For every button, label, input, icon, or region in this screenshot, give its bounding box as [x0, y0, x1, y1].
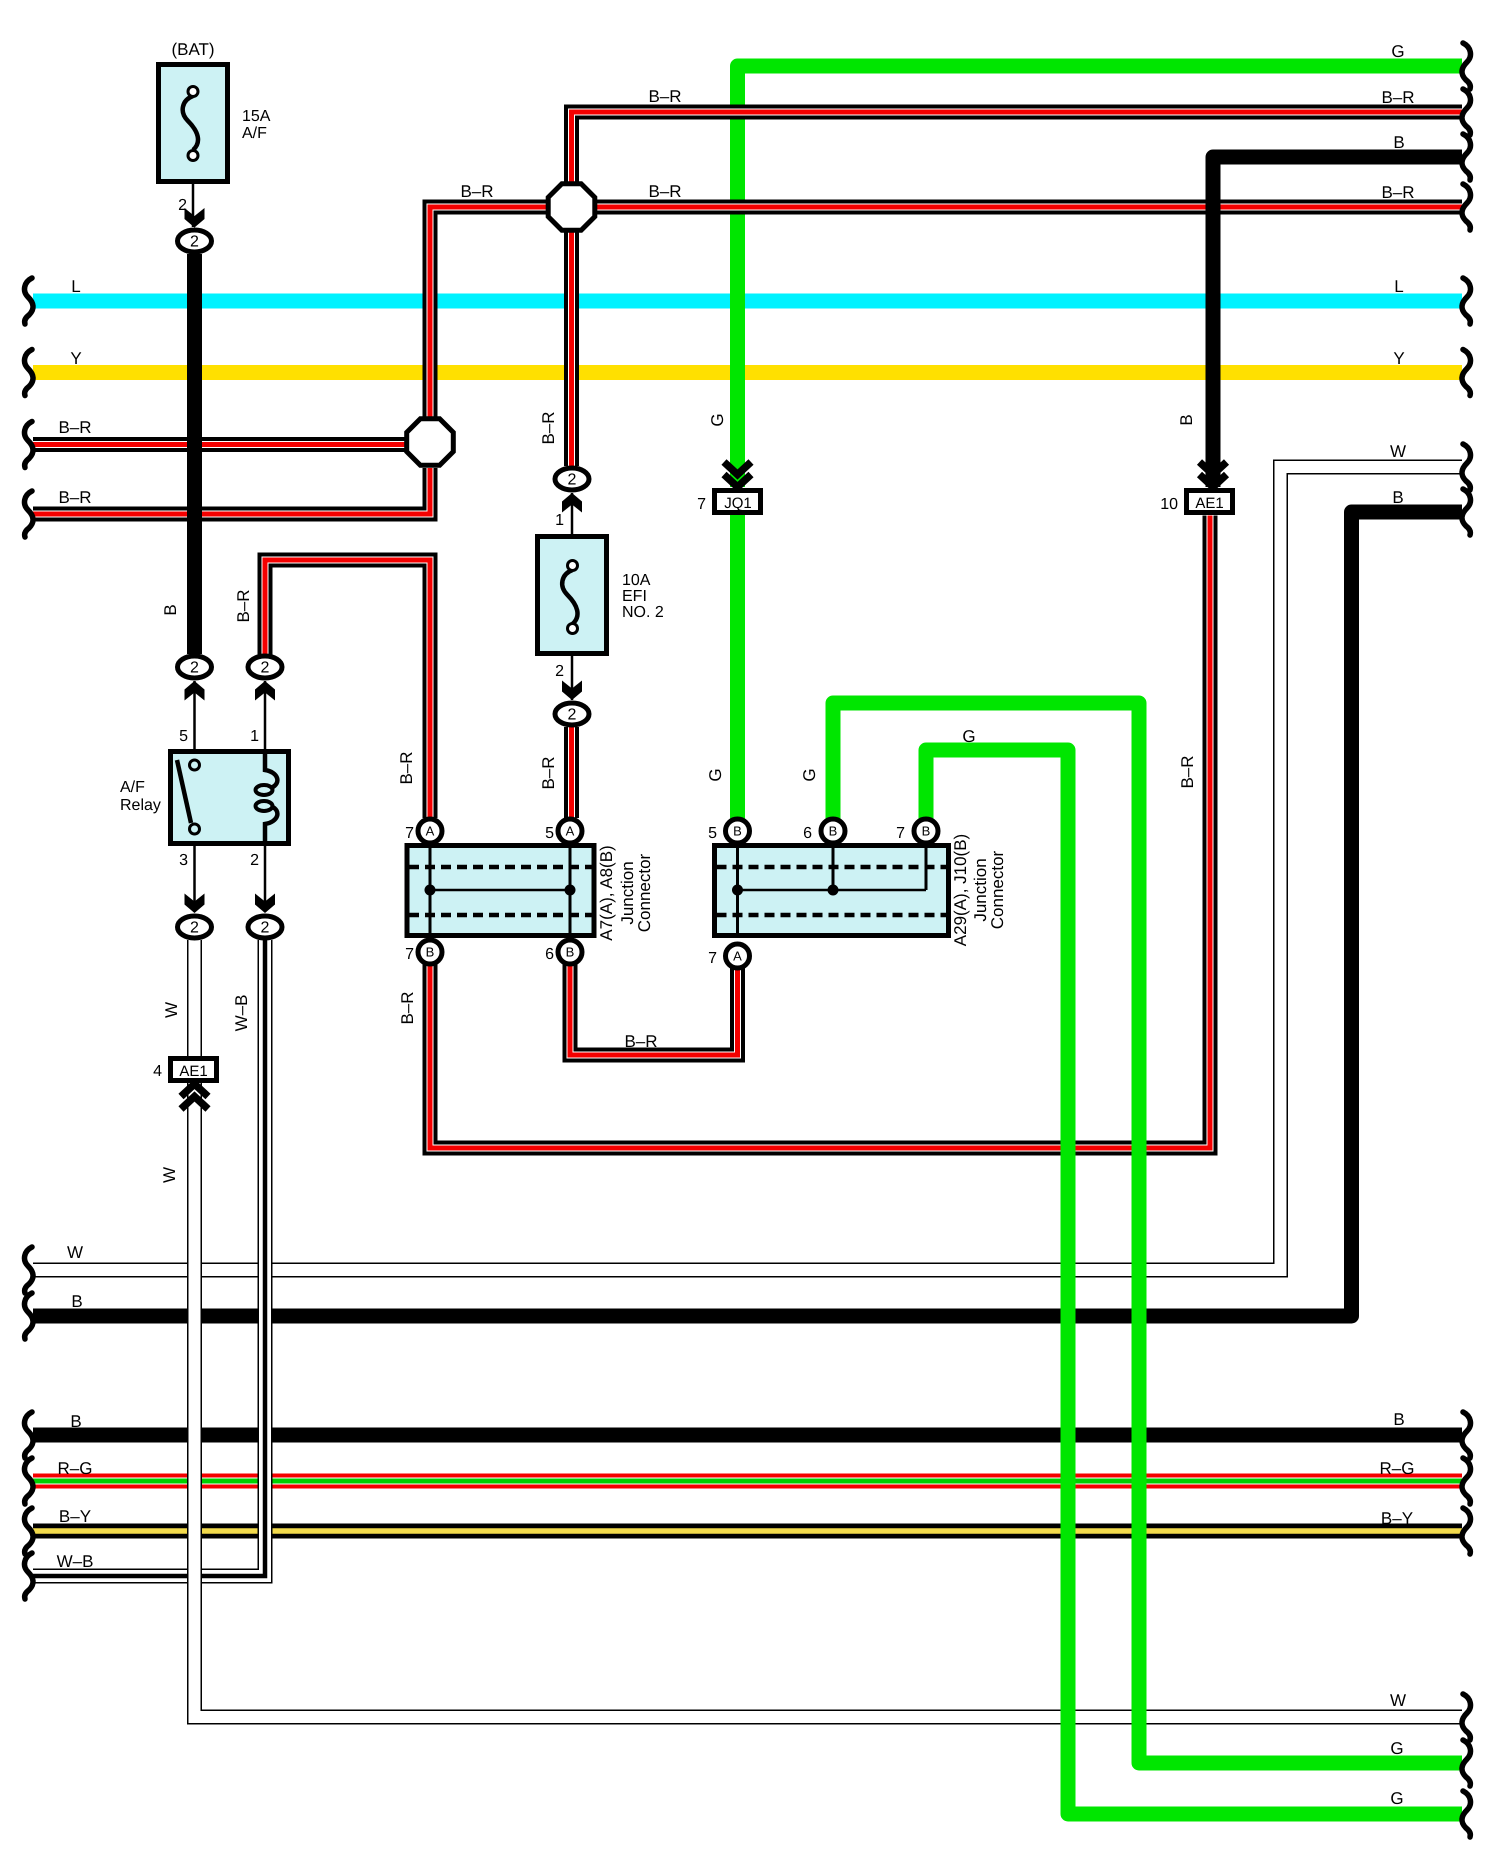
continuation squiggle left y=514 — [25, 491, 34, 537]
connector box AE1 left — [171, 1059, 217, 1081]
node oval 2 below fuse 15A — [178, 230, 212, 252]
wire W-B relay to left edge — [33, 940, 265, 1576]
wire W relay down to right edge — [195, 940, 1463, 1717]
svg-text:3: 3 — [179, 852, 188, 869]
svg-text:Relay: Relay — [120, 797, 161, 814]
arrow down into oval below relay pin 2 — [255, 894, 275, 914]
wire L (light blue) horizontal — [33, 294, 1462, 309]
junction connector A7(A), A8(B) — [407, 845, 594, 936]
continuation squiggle right y=301 — [1462, 278, 1471, 324]
fuse 10A EFI NO. 2 — [538, 537, 607, 654]
svg-text:2: 2 — [190, 234, 199, 251]
continuation squiggle right y=1717 — [1462, 1694, 1471, 1740]
continuation squiggle right y=372.5 — [1462, 350, 1471, 396]
svg-text:R–G: R–G — [1380, 1459, 1415, 1478]
svg-text:B–R: B–R — [1381, 183, 1414, 202]
svg-text:G: G — [962, 727, 975, 746]
wire B-R EFI fuse to junction pin 5A — [564, 727, 579, 818]
svg-text:B: B — [71, 1292, 82, 1311]
continuation squiggle right y=467 — [1462, 444, 1471, 490]
continuation squiggle left y=1531 — [25, 1508, 34, 1554]
svg-text:B: B — [1177, 414, 1196, 425]
continuation squiggle right y=112 — [1462, 89, 1471, 135]
relay pin 3 lead — [193, 844, 196, 912]
svg-text:5: 5 — [545, 825, 554, 842]
relay pin 5 lead — [193, 681, 196, 751]
wire W left edge loop to right edge — [33, 467, 1462, 1270]
wire B right edge to AE1 — [1213, 157, 1462, 487]
continuation squiggle left y=444.5 — [25, 422, 34, 468]
svg-text:2: 2 — [261, 660, 270, 677]
wire G junction 6B long run to right edge — [833, 703, 1462, 1763]
svg-text:B: B — [161, 604, 180, 615]
continuation squiggle right y=66 — [1462, 43, 1471, 89]
svg-text:A: A — [733, 949, 742, 964]
svg-text:(BAT): (BAT) — [171, 40, 214, 59]
continuation squiggle left y=1576 — [25, 1553, 34, 1599]
svg-text:W: W — [67, 1243, 83, 1262]
svg-text:B: B — [733, 824, 742, 839]
wire B-R junction 7B loop to AE1 — [430, 516, 1210, 1149]
svg-text:A/F: A/F — [120, 779, 145, 796]
node oval 2 below EFI fuse — [555, 703, 589, 725]
svg-text:2: 2 — [568, 472, 577, 489]
svg-text:B–R: B–R — [648, 87, 681, 106]
arrow down into oval below EFI fuse — [562, 681, 582, 701]
svg-text:7: 7 — [405, 946, 414, 963]
svg-text:B: B — [922, 824, 931, 839]
svg-text:A: A — [566, 824, 575, 839]
svg-text:A: A — [426, 824, 435, 839]
svg-text:6: 6 — [545, 946, 554, 963]
wire B left edge loop to right edge — [33, 512, 1462, 1316]
svg-text:W: W — [1390, 442, 1406, 461]
relay pin 2 lead — [264, 844, 267, 912]
svg-text:B: B — [426, 945, 435, 960]
pin 5(B) of junction connector 2 — [726, 819, 750, 843]
wire R-G bottom horizontal — [33, 1474, 1462, 1489]
svg-text:B–R: B–R — [539, 756, 558, 789]
svg-text:B–R: B–R — [539, 411, 558, 444]
fuse 15A A/F (BAT) — [159, 65, 228, 182]
svg-text:NO. 2: NO. 2 — [622, 604, 664, 621]
continuation squiggle right y=1531 — [1462, 1508, 1471, 1554]
svg-text:7: 7 — [896, 825, 905, 842]
svg-text:1: 1 — [250, 728, 259, 745]
junction connector A29(A), J10(B) — [715, 845, 949, 936]
svg-text:B–R: B–R — [398, 991, 417, 1024]
pin 5(A) of junction connector 1 — [558, 819, 582, 843]
pin 6(B) of junction connector 1 — [558, 940, 582, 964]
arrow up into oval above EFI fuse — [562, 493, 582, 513]
svg-text:Connector: Connector — [988, 850, 1007, 929]
svg-text:B: B — [70, 1412, 81, 1431]
wire B-R #4 left edge up into octagon J2 — [33, 468, 430, 514]
continuation squiggle right y=157 — [1462, 134, 1471, 180]
pin 6(B) of junction connector 2 — [821, 819, 845, 843]
svg-text:G: G — [708, 413, 727, 426]
wire G JQ1 to junction pin 5B — [730, 515, 745, 819]
continuation squiggle left y=1481 — [25, 1458, 34, 1504]
svg-text:G: G — [1390, 1739, 1403, 1758]
svg-text:B–Y: B–Y — [1381, 1509, 1413, 1528]
arrow down into AE1 right — [1200, 462, 1227, 487]
svg-text:G: G — [1390, 1789, 1403, 1808]
wire B-R vertical octagon J1 to fuse oval — [564, 232, 579, 466]
svg-text:W: W — [160, 1167, 179, 1183]
arrow up into AE1 left — [181, 1084, 208, 1109]
svg-text:A7(A), A8(B): A7(A), A8(B) — [597, 845, 616, 940]
arrow up into oval above relay pin 5 — [185, 681, 205, 701]
continuation squiggle right y=512 — [1462, 489, 1471, 535]
node octagon junction J2 — [407, 419, 454, 466]
relay pin 1 lead — [264, 681, 267, 751]
svg-text:R–G: R–G — [58, 1459, 93, 1478]
EFI fuse pin 2 lead — [571, 656, 574, 700]
svg-text:W: W — [162, 1002, 181, 1018]
arrow down into JQ1 — [724, 462, 751, 487]
node oval 2 below relay pin 2 — [248, 916, 282, 938]
pin 7(A) of junction connector 2 — [726, 944, 750, 968]
continuation squiggle right y=1763 — [1462, 1740, 1471, 1786]
svg-text:G: G — [706, 768, 725, 781]
svg-text:G: G — [1391, 42, 1404, 61]
wire G from right edge to JQ1 — [738, 66, 1463, 487]
svg-text:1: 1 — [555, 512, 564, 529]
arrow down into oval below relay pin 3 — [185, 894, 205, 914]
svg-text:2: 2 — [555, 663, 564, 680]
svg-text:Y: Y — [1393, 349, 1404, 368]
svg-text:2: 2 — [568, 707, 577, 724]
svg-text:B: B — [566, 945, 575, 960]
pin 7(B) of junction connector 1 — [418, 940, 442, 964]
svg-text:10: 10 — [1160, 496, 1178, 513]
svg-text:AE1: AE1 — [179, 1063, 207, 1080]
svg-text:B–R: B–R — [624, 1032, 657, 1051]
node octagon junction J1 — [548, 184, 595, 231]
svg-text:EFI: EFI — [622, 588, 647, 605]
svg-text:B–R: B–R — [234, 589, 253, 622]
svg-text:6: 6 — [803, 825, 812, 842]
svg-text:7: 7 — [697, 496, 706, 513]
node oval 2 above EFI fuse — [555, 468, 589, 490]
svg-text:JQ1: JQ1 — [724, 495, 752, 512]
wire B-R #3 left edge to octagon J2 — [33, 437, 405, 452]
svg-text:A29(A), J10(B): A29(A), J10(B) — [951, 834, 970, 946]
svg-text:7: 7 — [405, 825, 414, 842]
pin 7(A) of junction connector 1 — [418, 819, 442, 843]
svg-text:B–R: B–R — [1381, 88, 1414, 107]
continuation squiggle right y=1814 — [1462, 1791, 1471, 1837]
connector box AE1 right — [1187, 491, 1233, 513]
svg-text:B: B — [1393, 1410, 1404, 1429]
svg-text:Connector: Connector — [635, 853, 654, 932]
svg-text:B–R: B–R — [1178, 755, 1197, 788]
svg-text:A/F: A/F — [242, 125, 267, 142]
svg-text:5: 5 — [708, 825, 717, 842]
continuation squiggle left y=301 — [25, 278, 34, 324]
svg-text:2: 2 — [261, 920, 270, 937]
wire B-R #2 horizontal through octagon J1 — [430, 207, 1462, 417]
svg-text:L: L — [1394, 277, 1403, 296]
node oval 2 above relay pin 5 — [178, 656, 212, 678]
svg-text:10A: 10A — [622, 572, 651, 589]
continuation squiggle left y=1316 — [25, 1293, 34, 1339]
continuation squiggle right y=1435 — [1462, 1412, 1471, 1458]
arrow down into oval below fuse 15A — [185, 208, 205, 228]
wire B-R junction 6B to junction 7A loop — [570, 964, 738, 1055]
node oval 2 below relay pin 3 — [178, 916, 212, 938]
svg-text:2: 2 — [190, 660, 199, 677]
relay A/F Relay — [171, 751, 289, 845]
svg-text:B–R: B–R — [460, 182, 493, 201]
continuation squiggle left y=1435 — [25, 1412, 34, 1458]
continuation squiggle right y=207 — [1462, 184, 1471, 230]
svg-text:15A: 15A — [242, 108, 271, 125]
svg-text:Y: Y — [70, 349, 81, 368]
continuation squiggle left y=372.5 — [25, 350, 34, 396]
arrow up into oval above relay pin 1 — [255, 681, 275, 701]
wire B fuse 15A down to relay oval — [187, 254, 202, 654]
svg-text:B: B — [1393, 133, 1404, 152]
wire Y (yellow) horizontal — [33, 365, 1462, 380]
continuation squiggle right y=1481 — [1462, 1458, 1471, 1504]
svg-text:W–B: W–B — [57, 1552, 94, 1571]
svg-text:2: 2 — [190, 920, 199, 937]
wire B-R relay pin1 to junction pin 7A — [265, 560, 430, 818]
svg-text:L: L — [71, 277, 80, 296]
svg-text:4: 4 — [153, 1063, 162, 1080]
svg-text:B: B — [1392, 488, 1403, 507]
svg-text:W–B: W–B — [232, 995, 251, 1032]
svg-text:B–R: B–R — [397, 751, 416, 784]
svg-text:2: 2 — [250, 852, 259, 869]
wire G junction 7B long run to right edge — [926, 750, 1462, 1814]
svg-text:B–R: B–R — [58, 418, 91, 437]
svg-text:G: G — [800, 768, 819, 781]
svg-text:B: B — [829, 824, 838, 839]
node oval 2 above relay pin 1 — [248, 656, 282, 678]
svg-text:B–R: B–R — [648, 182, 681, 201]
svg-text:B–Y: B–Y — [59, 1507, 91, 1526]
svg-text:B–R: B–R — [58, 488, 91, 507]
continuation squiggle left y=1270 — [25, 1247, 34, 1293]
wire B-Y bottom horizontal — [33, 1524, 1462, 1539]
svg-text:AE1: AE1 — [1195, 495, 1223, 512]
wire B-R #1 top horizontal into octagon — [572, 112, 1463, 182]
svg-text:5: 5 — [179, 728, 188, 745]
wire B bottom horizontal — [33, 1428, 1462, 1443]
connector box JQ1 — [715, 491, 761, 513]
svg-text:W: W — [1390, 1691, 1406, 1710]
EFI fuse pin 1 lead — [571, 493, 574, 534]
pin 7(B) of junction connector 2 — [914, 819, 938, 843]
svg-text:7: 7 — [708, 950, 717, 967]
fuse 15A pin 2 lead — [192, 184, 195, 227]
